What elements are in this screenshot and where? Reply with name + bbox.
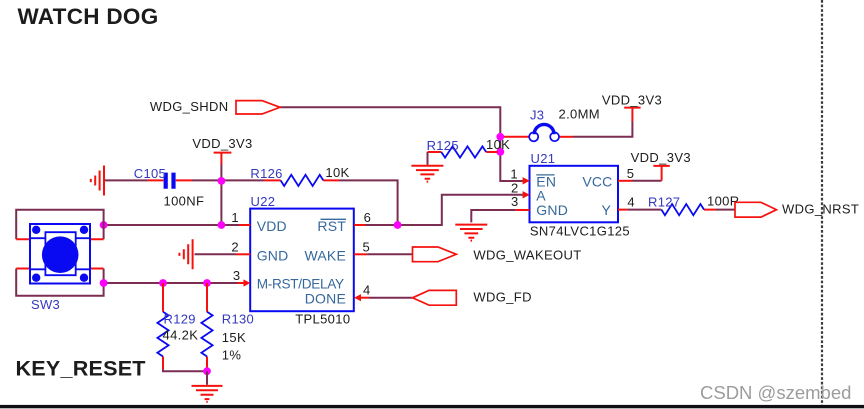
svg-text:R129: R129 <box>164 311 196 326</box>
svg-text:DONE: DONE <box>305 290 346 306</box>
svg-text:3: 3 <box>233 268 241 283</box>
svg-text:3: 3 <box>511 194 519 209</box>
wire SW3 to U22 VDD row <box>104 224 239 226</box>
resistor R127 <box>618 204 736 215</box>
wire WDG_SHDN net: flag to J3/R125 junction down to U21 EN <box>280 107 523 181</box>
pin 6 stub U22 <box>354 224 366 226</box>
junction at VDD row / C105 column <box>218 221 226 229</box>
junction at R130 bottom <box>203 367 211 375</box>
junction at VDD row / R126 column <box>394 221 402 229</box>
pin 4 arrow and wire to WDG_FD <box>354 294 413 301</box>
svg-text:R127: R127 <box>648 195 680 210</box>
svg-text:5: 5 <box>627 166 635 181</box>
svg-text:1%: 1% <box>222 347 242 362</box>
svg-text:2: 2 <box>231 240 239 255</box>
ground at C105 (rotated) <box>91 166 104 196</box>
svg-text:A: A <box>536 188 546 204</box>
capacitor C105 <box>148 173 193 189</box>
svg-text:U21: U21 <box>531 151 556 166</box>
switch SW3 top loop wire <box>16 210 103 240</box>
svg-text:4: 4 <box>363 283 371 298</box>
svg-text:10K: 10K <box>486 137 510 152</box>
svg-text:WDG_SHDN: WDG_SHDN <box>150 99 229 114</box>
svg-text:C105: C105 <box>134 166 166 181</box>
svg-text:15K: 15K <box>222 330 246 345</box>
wire R130 bottom to ground <box>206 371 208 385</box>
svg-text:U22: U22 <box>251 194 276 209</box>
svg-text:WDG_NRST: WDG_NRST <box>782 201 859 216</box>
junction at VDD row / SW3 <box>100 221 108 229</box>
svg-text:WATCH DOG: WATCH DOG <box>18 4 159 29</box>
bottom black bar <box>0 405 864 408</box>
junction at WDG_SHDN/J3 <box>496 133 504 141</box>
switch SW3 bottom loop wire <box>16 269 103 296</box>
switch SW3 red stubs <box>16 239 103 268</box>
svg-text:GND: GND <box>536 202 568 218</box>
svg-text:44.2K: 44.2K <box>163 328 199 343</box>
wire SW3 to U22 pin3 row <box>104 282 238 284</box>
wire U22 GND to ground <box>195 253 237 255</box>
wire C105 to junction to R126 <box>192 179 264 181</box>
ic U22 <box>250 209 354 312</box>
junction at pin3 row / R130 <box>203 279 211 287</box>
pin 1 arrow U21 <box>523 177 530 184</box>
wire R129 bottom to R130 bottom <box>163 369 207 371</box>
svg-text:1: 1 <box>510 167 518 182</box>
wire junction down to U22 VDD row <box>220 181 222 225</box>
svg-text:VCC: VCC <box>582 174 612 190</box>
wire R126 right corner down to RST row <box>339 180 398 225</box>
pin name RST with overline <box>317 218 346 234</box>
jumper J3 <box>529 124 559 141</box>
svg-text:SW3: SW3 <box>31 297 60 312</box>
svg-text:CSDN @szembed: CSDN @szembed <box>700 382 851 403</box>
ground at U22 (rotated) <box>179 239 192 269</box>
wire U22 RST to corner up to U21 A <box>366 195 525 225</box>
svg-text:J3: J3 <box>530 107 544 122</box>
svg-text:WAKE: WAKE <box>304 247 346 263</box>
svg-text:RST: RST <box>317 218 346 234</box>
pin 2 arrow U21 <box>523 191 530 198</box>
dashed separator line <box>821 0 823 409</box>
svg-text:WDG_WAKEOUT: WDG_WAKEOUT <box>473 247 581 262</box>
power VDD_3V3 at U21 <box>653 166 669 181</box>
pin name EN with overline <box>536 174 556 190</box>
wire U21 VCC to VDD <box>632 180 662 182</box>
svg-text:TPL5010: TPL5010 <box>295 312 350 327</box>
svg-text:SN74LVC1G125: SN74LVC1G125 <box>530 223 630 238</box>
svg-text:VDD_3V3: VDD_3V3 <box>631 150 691 165</box>
wire U21 GND pin to ground <box>471 210 516 222</box>
port WDG_FD <box>413 290 457 305</box>
svg-text:R126: R126 <box>250 166 282 181</box>
svg-text:VDD: VDD <box>257 218 287 234</box>
ground at R125 <box>411 166 443 182</box>
switch SW3 body <box>30 224 90 284</box>
wire J3 right red stub <box>558 136 574 138</box>
wire J3 right to VDD corner <box>573 122 632 137</box>
ground at U21 <box>455 225 487 241</box>
ground at R130 <box>192 386 223 402</box>
svg-text:5: 5 <box>363 240 371 255</box>
svg-text:6: 6 <box>364 210 372 225</box>
resistor R126 <box>264 175 339 186</box>
svg-text:R125: R125 <box>427 138 459 153</box>
svg-text:100NF: 100NF <box>164 194 205 209</box>
svg-text:WDG_FD: WDG_FD <box>473 290 531 305</box>
svg-text:Y: Y <box>601 202 611 218</box>
svg-text:VDD_3V3: VDD_3V3 <box>602 93 662 108</box>
junction at R125 <box>496 148 504 156</box>
resistor R125 <box>428 146 498 157</box>
pin 2 stub U22 <box>236 253 250 255</box>
port WDG_NRST <box>735 202 777 217</box>
wire R125 left corner <box>427 152 429 165</box>
svg-text:R130: R130 <box>222 311 254 326</box>
pin 5 stub U22 and wire to WDG_WAKEOUT <box>354 253 413 255</box>
svg-text:KEY_RESET: KEY_RESET <box>16 356 146 381</box>
svg-text:10K: 10K <box>325 165 349 180</box>
junction at C105/VDD <box>218 177 226 185</box>
svg-text:M-RST/DELAY: M-RST/DELAY <box>257 276 344 291</box>
pin 5 stub U21 <box>618 180 632 182</box>
svg-text:GND: GND <box>257 247 289 263</box>
wire VDD to C105 junction <box>220 165 222 180</box>
pin 3 red stub and arrow U22 <box>238 279 251 286</box>
power VDD_3V3 top left <box>214 153 232 165</box>
pin 3 stub U21 <box>516 209 530 211</box>
port WDG_WAKEOUT <box>413 247 457 262</box>
resistor R130 <box>201 283 212 371</box>
pin 1 stub U22 <box>239 224 250 226</box>
wire C105 ground lead <box>105 179 148 181</box>
junction at pin3 row / SW3 <box>100 279 108 287</box>
svg-text:2.0MM: 2.0MM <box>559 107 600 122</box>
ic U21 <box>530 166 619 223</box>
svg-text:4: 4 <box>627 195 635 210</box>
port WDG_SHDN <box>236 101 280 114</box>
junction at pin3 row / R129 <box>159 279 167 287</box>
svg-text:VDD_3V3: VDD_3V3 <box>192 136 252 151</box>
wire J3 left red stub <box>501 136 532 138</box>
power VDD_3V3 at J3 <box>624 108 640 122</box>
svg-text:1: 1 <box>231 210 239 225</box>
resistor R129 <box>157 283 168 369</box>
